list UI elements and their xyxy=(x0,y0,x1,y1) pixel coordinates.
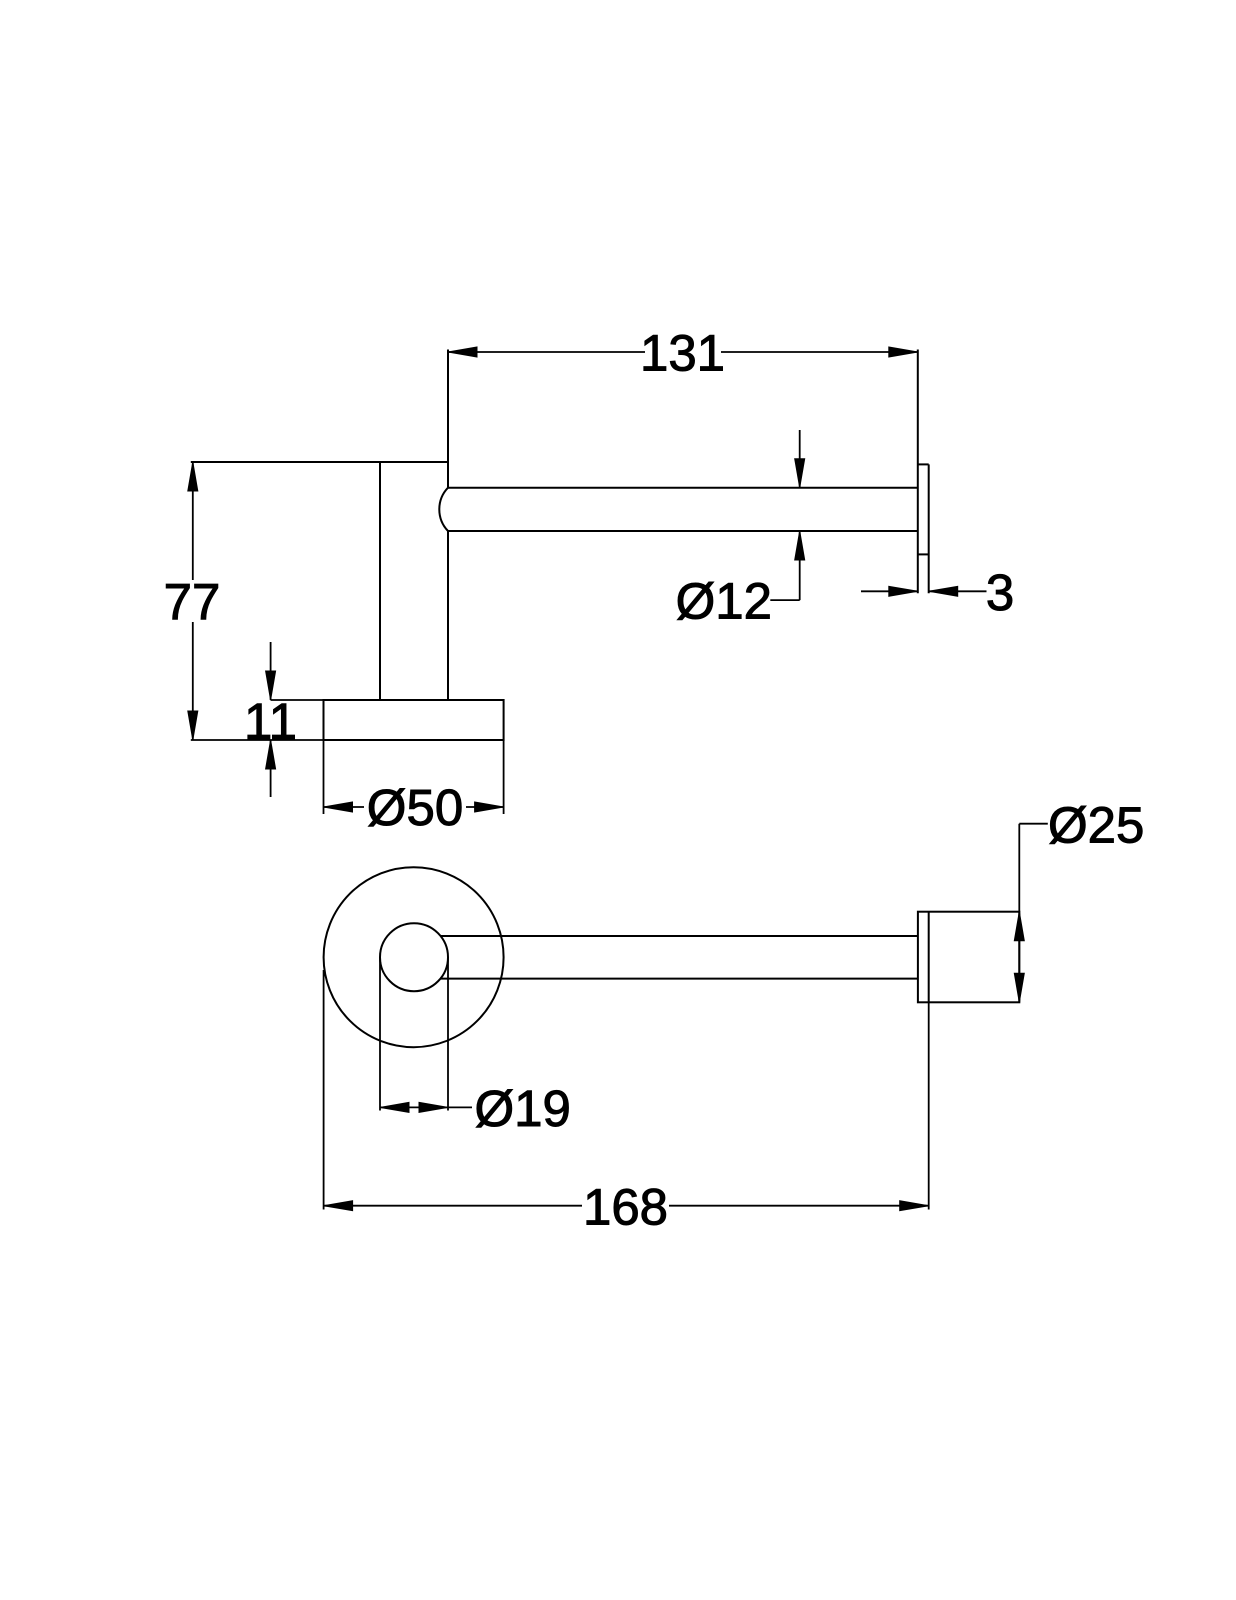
svg-text:77: 77 xyxy=(164,573,221,630)
svg-text:168: 168 xyxy=(583,1179,668,1236)
svg-text:Ø50: Ø50 xyxy=(367,779,463,836)
svg-text:Ø25: Ø25 xyxy=(1048,796,1144,853)
svg-text:131: 131 xyxy=(640,324,725,381)
svg-text:11: 11 xyxy=(244,693,297,750)
svg-text:Ø19: Ø19 xyxy=(475,1080,571,1137)
svg-text:3: 3 xyxy=(986,564,1014,621)
svg-text:Ø12: Ø12 xyxy=(676,573,772,630)
